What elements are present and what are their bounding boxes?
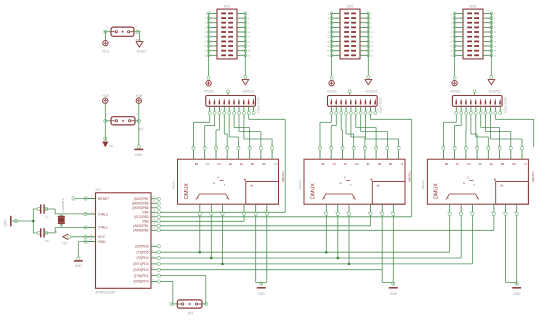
svg-text:JP2: JP2 [138, 128, 144, 132]
ground GND left of caps [4, 216, 34, 227]
connector LED2 bottom pins [330, 106, 380, 114]
wire SV2 right rail [360, 12, 374, 76]
svg-text:(AIN1)PB1: (AIN1)PB1 [133, 224, 148, 228]
wire block2 right rail vertical [411, 119, 413, 217]
svg-text:GND: GND [258, 292, 266, 296]
wire SV3 right rail [483, 12, 497, 76]
wire U2 G1 drop [370, 215, 372, 226]
svg-text:(SCK)PB7: (SCK)PB7 [134, 197, 149, 201]
wire U2 select C drop [348, 215, 350, 264]
svg-text:G: G [213, 181, 215, 185]
pin header SV1 [217, 4, 237, 59]
wire net PB1 to DMUX2 G1 [160, 225, 370, 227]
wire U3 select C drop [471, 215, 473, 264]
ground GND03 [488, 76, 501, 94]
supply +UB left [102, 94, 110, 103]
wire U2 select A drop [325, 215, 327, 252]
connector LED3 10pol [452, 96, 507, 115]
wire SV1 right rail [237, 12, 251, 76]
wire U3 G2 to ground [506, 215, 517, 284]
svg-text:PB4: PB4 [142, 211, 148, 215]
svg-text:C2: C2 [45, 215, 49, 219]
wire net A select [160, 251, 449, 254]
svg-text:IC1: IC1 [96, 188, 101, 192]
wire SV3 left rail [450, 12, 463, 76]
svg-text:SV1: SV1 [224, 4, 231, 8]
connector LED1 10pol [206, 96, 261, 115]
svg-text:RESET: RESET [98, 197, 109, 201]
svg-text:GND: GND [135, 153, 143, 157]
svg-text:LED2 10POL: LED2 10POL [378, 97, 382, 114]
IC1 port B pins [151, 197, 160, 232]
wire to capacitor C2 [33, 207, 40, 210]
svg-text:+UB: +UB [135, 94, 143, 98]
wire block1 right rail vertical [284, 119, 286, 212]
svg-text:SV3: SV3 [470, 4, 477, 8]
svg-text:DMUX: DMUX [434, 183, 440, 199]
svg-text:+5V02: +5V02 [326, 90, 337, 94]
wire JP1 pin2 to GND1 [134, 27, 141, 42]
svg-text:+5V: +5V [62, 242, 69, 246]
wire JP1 pin1 to +5V1 [104, 27, 111, 41]
JP3 pin marks [170, 299, 208, 306]
wire net PB4 to block1 right rail [160, 211, 285, 213]
capacitor C3 [41, 228, 49, 243]
wire U3 G1 drop [493, 215, 495, 230]
supply +UB right [135, 94, 143, 103]
svg-text:XTAL2: XTAL2 [98, 212, 108, 216]
wire U1 G1 drop [243, 215, 245, 221]
connector JP2 [106, 114, 143, 131]
svg-text:(MOSI)PB5: (MOSI)PB5 [132, 206, 149, 210]
ground GND under U3 [512, 282, 521, 296]
wire U2 select B drop [337, 215, 339, 258]
svg-text:74138N: 74138N [531, 171, 535, 182]
pin header SV3 [463, 4, 483, 59]
wire U1 select A drop [199, 215, 201, 252]
wire U2 G2 to ground [382, 215, 393, 284]
capacitor C2 [41, 204, 49, 219]
svg-text:GND01: GND01 [243, 90, 255, 94]
wire LED1 fanout [194, 115, 286, 147]
wire net PD0 RXD to JP3 [160, 281, 174, 304]
demux U1 bottom pins [197, 204, 269, 215]
wire U1 select C drop [222, 215, 224, 264]
svg-text:GND02: GND02 [366, 90, 378, 94]
svg-text:(T1)PD5: (T1)PD5 [136, 250, 148, 254]
pin header SV2 [340, 4, 360, 59]
demux U2 bottom pins [323, 204, 395, 215]
svg-text:G: G [340, 181, 342, 185]
svg-text:74138N: 74138N [281, 171, 285, 182]
ground GND01 [242, 76, 255, 94]
connector LED3 bottom pins [455, 106, 505, 114]
svg-text:VCC: VCC [98, 235, 106, 239]
svg-text:GND: GND [75, 264, 83, 268]
svg-text:PB2: PB2 [142, 220, 148, 224]
wire net PB0 to DMUX3 G1 [160, 229, 494, 231]
svg-text:+5V1: +5V1 [101, 49, 110, 53]
wire U1 G2 to ground [256, 215, 267, 284]
svg-text:SV2: SV2 [347, 4, 354, 8]
ground GND1 [136, 42, 147, 54]
wire C3 to XTAL1 [44, 227, 95, 234]
demux U1 top pins [192, 145, 274, 159]
svg-text:LED3 10POL: LED3 10POL [503, 97, 507, 114]
ground GND under JP2 [134, 149, 143, 157]
svg-text:MUX3: MUX3 [421, 180, 425, 189]
wire cap junction [32, 209, 35, 233]
wire GND pin down [77, 242, 96, 261]
svg-text:74138N: 74138N [407, 171, 411, 182]
ground GND02 [365, 76, 378, 94]
wire net B select [160, 257, 461, 260]
svg-text:(MISO)PB6: (MISO)PB6 [132, 202, 149, 206]
svg-text:(INT0)PD2: (INT0)PD2 [133, 268, 148, 272]
wire U3 select B drop [460, 215, 462, 258]
wire net PD1 TXD to JP3 [160, 276, 206, 304]
svg-text:12.2880MHz: 12.2880MHz [61, 198, 65, 215]
svg-text:GND: GND [98, 240, 106, 244]
connector LED1 bottom pins [208, 106, 258, 114]
ground GND under U1 [257, 282, 266, 296]
wire RESET stub [72, 197, 96, 200]
wire SV1 left rail [204, 12, 217, 76]
demux U1 74138 [171, 159, 285, 204]
svg-text:(OC1)PB3: (OC1)PB3 [134, 215, 149, 219]
wire net C select [160, 263, 472, 266]
svg-text:XTAL1: XTAL1 [98, 226, 108, 230]
supply +5V1 [101, 41, 110, 54]
wire net PB3 to block2 right rail [160, 216, 411, 218]
svg-text:DMUX: DMUX [184, 183, 190, 199]
crystal Q1 [54, 198, 65, 234]
svg-text:MUX2: MUX2 [298, 180, 302, 189]
svg-text:GND1: GND1 [137, 49, 147, 53]
svg-text:MUX1: MUX1 [171, 180, 175, 189]
IC IC1 AT90S2313P body [96, 188, 152, 294]
svg-text:+5V03: +5V03 [449, 90, 460, 94]
svg-text:(AIN0)PB0: (AIN0)PB0 [133, 229, 148, 233]
supply +5V01 [203, 76, 214, 93]
demux U2 74138 [298, 159, 412, 204]
IC1 left pins [84, 196, 96, 243]
demux U3 74138 [421, 159, 535, 204]
connector LED2 10pol [328, 96, 383, 115]
svg-text:PE: PE [110, 144, 114, 148]
svg-text:GND: GND [390, 292, 398, 296]
wire net PD2 [160, 269, 382, 271]
wire LED2 fanout [320, 115, 412, 147]
ground PE arrow [102, 137, 113, 148]
supply +5V03 [449, 76, 460, 93]
svg-text:GND: GND [513, 292, 521, 296]
svg-text:AT90S2313P: AT90S2313P [96, 291, 117, 295]
svg-text:+5V01: +5V01 [203, 90, 214, 94]
svg-text:DMUX: DMUX [310, 183, 316, 199]
svg-text:GND: GND [4, 219, 8, 227]
wire U3 select A drop [449, 215, 451, 252]
svg-text:Q1: Q1 [54, 230, 58, 234]
wire net PB2 to DMUX1 G1 [160, 220, 244, 222]
IC1 port D pins [151, 244, 160, 283]
supply +5V at VCC [62, 234, 96, 246]
svg-text:C3: C3 [45, 239, 49, 243]
svg-text:JP3: JP3 [187, 312, 193, 316]
svg-text:(RXD)PD0: (RXD)PD0 [133, 280, 148, 284]
svg-text:G: G [463, 181, 465, 185]
connector JP3 [177, 300, 202, 316]
wire SV2 left rail [327, 12, 340, 76]
wire LED3 fanout [443, 115, 533, 147]
connector JP1 [111, 27, 141, 42]
svg-text:(T0)PD4: (T0)PD4 [136, 256, 148, 260]
wire LED3 top stub [473, 90, 476, 96]
wire block3 right rail vertical [533, 119, 535, 147]
wire +UB to JP2 pin2 to GND [135, 103, 140, 148]
demux U3 top pins [442, 145, 524, 159]
svg-text:(ICP)PD6: (ICP)PD6 [135, 245, 149, 249]
wire LED1 top stub [227, 90, 230, 96]
wire to capacitor C3 [33, 231, 40, 234]
svg-text:(INT1)PD3: (INT1)PD3 [133, 262, 148, 266]
svg-text:+UB: +UB [102, 94, 110, 98]
svg-text:(TXD)PD1: (TXD)PD1 [134, 274, 149, 278]
wire U1 select B drop [210, 215, 212, 258]
svg-text:GND03: GND03 [489, 90, 501, 94]
wire C2 to XTAL2 [44, 207, 95, 214]
svg-text:LED1 10POL: LED1 10POL [257, 97, 261, 114]
demux U3 bottom pins [447, 204, 519, 215]
wire +UB to JP2 pin1 to PE [104, 103, 111, 140]
supply +5V02 [326, 76, 337, 93]
ground GND under IC [74, 261, 83, 268]
wire LED2 top stub [348, 90, 351, 96]
ground GND under U2 [389, 282, 398, 296]
demux U2 top pins [318, 145, 400, 159]
